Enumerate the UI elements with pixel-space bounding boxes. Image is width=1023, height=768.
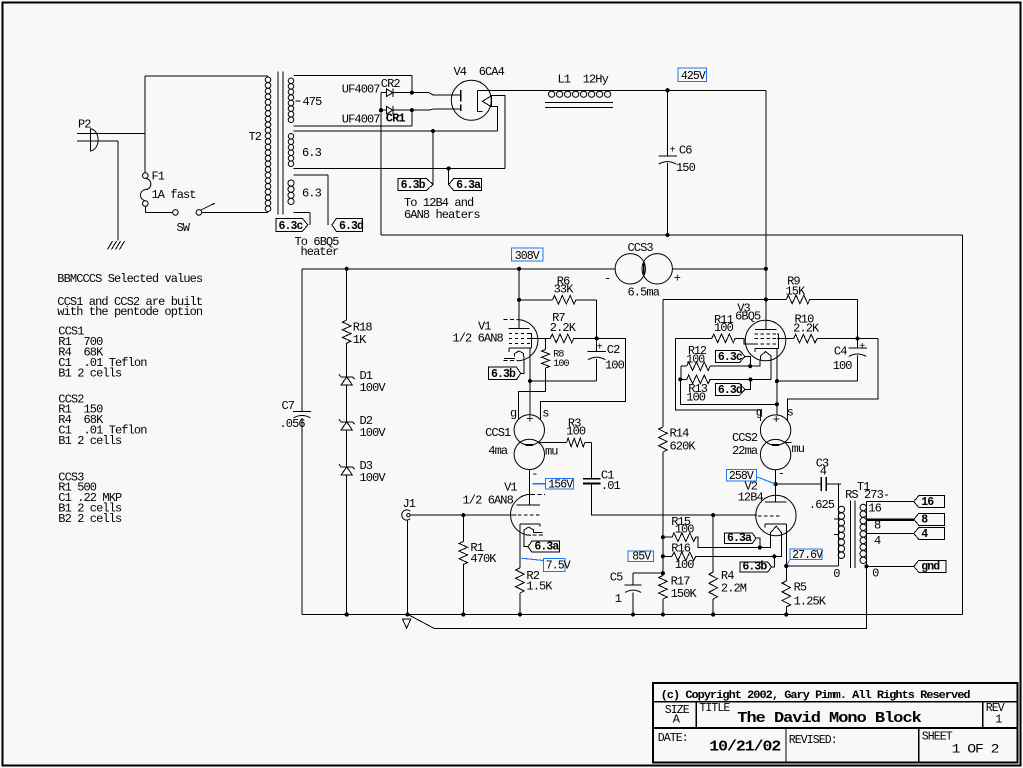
capacitor C2 100uF [596,338,598,351]
resistor R18 1K [342,320,351,343]
svg-text:UF4007: UF4007 [342,112,381,126]
wire C2 bottom to cathode node [530,380,597,382]
junction V3 plate node [764,297,768,301]
svg-text:6.3d: 6.3d [718,384,743,397]
junction 6.3c drop [748,364,752,368]
ground chassis [108,241,113,250]
flag 6.3d at V3 [715,384,745,396]
svg-text:1.5K: 1.5K [526,580,553,594]
T1 primary winding [838,506,844,512]
transformer T2 primary winding [265,77,271,83]
svg-text:(c) Copyright 2002, Gary Pimm.: (c) Copyright 2002, Gary Pimm. All Right… [661,690,970,702]
svg-text:1A fast: 1A fast [152,188,196,202]
wire heater to flag 6.3a [524,533,528,547]
svg-text:V1: V1 [504,480,517,494]
zener D1 100V [339,374,355,379]
svg-text:1/2 6AN8: 1/2 6AN8 [463,493,514,507]
wire hot to fuse [144,134,146,173]
wire to V4 top plate [412,93,461,95]
V1 triode heater [524,527,533,532]
flag 6.3a [449,179,482,191]
svg-text:C4: C4 [834,345,847,359]
wire R12 to heater left [750,360,760,367]
V2 heater [770,526,781,536]
junction CR1 anode [379,108,383,112]
wire rail to R18 [346,269,348,320]
svg-text:s: s [542,407,549,421]
flag 8 [914,513,945,525]
svg-text:6AN8 heaters: 6AN8 heaters [404,208,480,222]
V3 suppressor to cathode tie [777,334,779,349]
svg-text:2.2K: 2.2K [793,322,820,336]
V4 plate top [460,90,462,102]
zener D2 100V [339,419,355,424]
svg-text:6.3b: 6.3b [491,368,516,381]
svg-text:16: 16 [921,496,934,509]
wire ground bus bottom [302,614,963,616]
flag 6.3a at V2 [725,533,757,543]
V1 pentode cathode [509,347,532,349]
flag 6.3c [276,218,308,231]
wire ground return to T1 secondary 0 [410,566,867,628]
svg-text:10/21/02: 10/21/02 [709,739,781,756]
flag 6.3a at V1 [528,541,560,552]
svg-text:gnd: gnd [921,561,940,574]
svg-text:100: 100 [833,359,853,373]
V2 grid [758,515,781,517]
T1 primary taps [834,518,838,520]
wire V4 heater pin to 6.3 winding top [491,107,497,131]
wire V3 cathode down [776,348,778,415]
svg-text:T2: T2 [249,130,262,144]
winding 6.3 second [288,180,294,186]
svg-text:150: 150 [676,161,696,175]
junction heater 6.3b tap [431,129,435,133]
svg-text:SW: SW [177,221,191,235]
svg-text:156V: 156V [548,478,573,491]
wire CCS1 minus to V1 triode plate [528,470,530,505]
svg-text:0: 0 [833,567,840,581]
svg-text:g: g [756,406,763,420]
svg-text:+: + [773,413,780,427]
junction V3 cathode bracket [775,402,779,406]
capacitor C3 4uF [776,483,822,485]
svg-text:+: + [859,342,865,353]
svg-text:308V: 308V [515,250,540,263]
svg-text:16: 16 [868,501,881,515]
svg-text:0: 0 [872,566,879,580]
capacitor C4 100uF [857,339,859,348]
junction R6 tap [517,298,521,302]
junction cathode node [528,379,532,383]
V3 plate [755,329,776,331]
flag 6.3d [332,218,363,231]
resistor R17 150K [662,573,664,575]
svg-text:P2: P2 [78,117,91,131]
switch SW [173,210,179,216]
wire ground bus right side [962,235,964,615]
junction R13 left [678,377,682,381]
svg-text:C5: C5 [610,570,623,584]
junction 258V node [774,482,778,486]
CCS2 mu stub [784,442,792,444]
resistor R14 620K [662,299,664,427]
wire V1 cathode down [529,348,531,381]
V1 pentode plate [509,328,530,330]
svg-text:6.3d: 6.3d [339,220,364,233]
svg-text:6.3: 6.3 [302,187,322,201]
wire C4 bottom to V3 cathode [777,380,858,382]
wire 425V to V3 plate [765,269,767,330]
resistor R1 470K [462,515,464,541]
svg-text:620K: 620K [670,439,697,453]
junction R4 top [711,513,715,517]
CCS1 mu output [538,442,544,444]
V1 suppressor to cathode tie [530,334,532,349]
wire J1 to V1 grid [410,514,516,516]
wire zener column to ground bus [346,475,348,614]
svg-text:s: s [787,405,794,419]
svg-text:V4 6CA4: V4 6CA4 [454,65,505,79]
svg-text:33K: 33K [554,283,575,297]
svg-text:UF4007: UF4007 [342,83,381,97]
wire P2 neutral to ground [91,140,119,142]
svg-text:B2 2 cells: B2 2 cells [58,512,122,526]
wire R15 to V2 heater left [760,536,771,548]
flag 6.3c at V3 [715,350,745,362]
T1 0 tap to gnd flag [866,565,913,567]
wire R11 to CCS2 gate [675,338,760,421]
svg-text:DATE:: DATE: [658,732,688,745]
junction C6 top [665,88,669,92]
svg-text:F1: F1 [152,170,165,184]
V1 triode plate [516,504,539,506]
V3 cathode [755,347,778,349]
V2 cathode [765,523,786,525]
svg-text:475: 475 [303,95,323,109]
V1 pentode grids [509,333,530,335]
V3 grids [755,333,778,335]
wire C3 to T1 primary [837,484,839,566]
junction V2 cathode R5 [784,564,788,568]
svg-text:6.3b: 6.3b [742,561,767,574]
svg-text:1: 1 [995,713,1002,727]
wire R12 R13 left bracket [680,366,682,379]
T1 4 ohm tap [866,533,913,535]
svg-text:100V: 100V [360,381,387,395]
svg-text:The David Mono Block: The David Mono Block [737,710,922,727]
svg-text:12B4: 12B4 [738,491,764,505]
flag 6.3b at V2 [740,562,772,572]
svg-text:RS 273-: RS 273- [845,488,889,502]
svg-text:-: - [778,467,784,481]
svg-text:CCS1: CCS1 [485,426,511,440]
wire node to CCS1 screen [540,338,625,419]
svg-text:2.2M: 2.2M [721,582,747,596]
wire R13 to heater right [770,360,772,380]
svg-text:100: 100 [553,359,569,370]
svg-text:6.5ma: 6.5ma [628,285,660,299]
zener D3 100V [339,464,355,469]
svg-text:6.3a: 6.3a [534,541,559,554]
wire 425V rail right [765,90,767,268]
wire J1 to ground [407,520,409,615]
plug P2 [91,129,99,151]
svg-text:g: g [510,407,517,421]
wire R16 to V2 heater right [774,536,781,556]
node 85V [628,551,654,561]
T1 16 ohm tap [866,500,913,502]
junction 308V R18 column [345,267,349,271]
svg-text:100: 100 [675,522,695,536]
svg-text:.01: .01 [601,479,621,493]
wire R14 column junctions [662,537,664,573]
wire ground bus top [381,234,963,236]
flag 4 [914,528,945,540]
junction V1 plate rail [517,267,521,271]
T1 8 ohm tap [866,518,913,521]
svg-text:with the pentode option: with the pentode option [57,305,203,319]
flag 16 [914,496,945,508]
svg-text:425V: 425V [681,70,706,83]
wire to flag 6.3b [432,131,434,185]
svg-text:B1 2 cells: B1 2 cells [58,366,122,380]
wire switch to primary [202,211,268,213]
V2 plate [765,501,786,503]
fuse F1 [143,173,149,179]
svg-text:85V: 85V [632,551,651,564]
wire V4 cathode to B+ rail [478,89,766,91]
wire to V4 bottom plate [412,109,461,110]
svg-text:L1 12Hy: L1 12Hy [558,73,609,87]
svg-text:4: 4 [820,465,827,479]
junction R7 R6 C2 node [595,336,599,340]
svg-text:CR2: CR2 [381,77,401,91]
wire V2 cathode to T1 primary [786,565,838,567]
svg-text:100: 100 [605,359,625,373]
junction R16 left [661,554,665,558]
svg-text:+: + [674,271,681,285]
wire fuse to switch [144,206,146,212]
svg-text:100: 100 [714,321,734,335]
node 27.6V [790,549,822,560]
svg-text:heater: heater [301,245,340,259]
svg-text:+: + [670,145,676,156]
svg-text:100: 100 [566,425,586,439]
svg-text:6.3a: 6.3a [456,179,481,192]
junction 6.3d rise [748,377,752,381]
svg-text:1K: 1K [353,333,367,347]
wire CR2 anode [381,92,386,94]
V3 heater [760,352,770,360]
wire CR1 cathode to junction [393,109,412,111]
svg-text:8: 8 [874,518,881,532]
svg-text:SHEET: SHEET [922,730,953,743]
svg-text:100V: 100V [360,471,387,485]
svg-text:8: 8 [921,514,928,527]
junction C4 top [855,337,859,341]
svg-text:6.3c: 6.3c [718,351,743,364]
wire R10 to CCS2 screen [787,339,878,421]
svg-text:R5: R5 [794,580,807,594]
wire CR2 cathode to junction [393,92,412,94]
winding 475 [288,78,294,84]
svg-text:C6: C6 [679,143,692,157]
svg-text:TITLE: TITLE [699,702,730,715]
resistor R4 2.2M [712,515,714,572]
svg-text:100V: 100V [360,426,387,440]
junction CCS3 plus [764,267,768,271]
wire 308V rail [302,268,615,270]
capacitor C7 .056 [301,269,303,412]
wire bracket to cathode node [680,379,776,404]
wire diode anodes down to ground bus [380,93,382,235]
wire P2 hot to transformer [91,133,146,135]
node 7.5V [522,558,544,560]
junction secondary 0 [864,564,868,568]
wire V2 cathode down [785,524,787,566]
V1 pentode heater [515,351,524,357]
T1 secondary winding [865,501,867,566]
junction R1 top [461,513,465,517]
svg-text:C2: C2 [607,343,620,357]
transformer T2 core [277,72,279,215]
wire V4 heater pin to 6.3 winding bottom [491,96,505,169]
capacitor C1 .01 [590,443,592,479]
svg-text:CR1: CR1 [386,112,406,126]
svg-text:REVISED:: REVISED: [789,734,837,747]
junction C6 bottom [665,233,669,237]
resistor R2 1.5K [516,568,525,593]
wire rail to C6 [667,90,669,155]
svg-text:J1: J1 [403,497,416,511]
svg-text:100: 100 [686,391,706,405]
svg-text:1/2 6AN8: 1/2 6AN8 [452,331,503,345]
svg-text:-: - [531,467,537,481]
flag 6.3b [398,179,433,191]
junction CR2 node [410,91,414,95]
node 425V [678,68,707,82]
V4 cathode [478,90,483,111]
flag 6.3b at V1 [489,367,521,379]
junction C5 R17 [661,571,665,575]
node 308V [512,248,544,261]
wire V1 plate to 308V rail [518,269,520,329]
svg-text:6.3c: 6.3c [279,220,304,233]
svg-text:1: 1 [615,592,622,606]
svg-text:+: + [526,413,533,427]
svg-text:1.25K: 1.25K [794,595,827,609]
junction 6.3a drop at V2 [758,545,762,549]
svg-text:4ma: 4ma [488,444,508,458]
V1 triode cathode [520,523,540,525]
svg-text:C7: C7 [282,399,295,413]
svg-text:CCS3: CCS3 [628,241,654,255]
svg-text:6BQ5: 6BQ5 [735,309,761,323]
svg-text:2.2K: 2.2K [550,321,577,335]
svg-text:4: 4 [921,528,928,541]
svg-text:470K: 470K [470,552,497,566]
svg-text:4: 4 [874,534,881,548]
V4 plate bottom [460,105,462,112]
svg-text:150K: 150K [671,587,698,601]
junction heater 6.3a tap [447,166,451,170]
winding 6.3 first [288,134,294,140]
flag gnd [914,560,946,572]
node 258V [726,469,756,481]
junction 6.3b rise at V2 [772,554,776,558]
V1 triode grid [518,514,540,516]
title block frame [653,683,1018,763]
capacitor C5 1uF [633,572,663,574]
junction V3 cathode C4 [775,379,779,383]
ground arrow [402,619,411,629]
svg-text:7.5V: 7.5V [546,560,571,573]
junction J1 ground [406,612,410,616]
svg-text:mu: mu [792,442,805,456]
T1 core [850,501,852,569]
svg-text:.625: .625 [809,498,835,512]
svg-text:6.3: 6.3 [302,146,322,160]
svg-text:6.3a: 6.3a [727,532,752,545]
svg-text:mu: mu [545,444,558,458]
svg-text:22ma: 22ma [732,444,758,458]
wire CCS2 to V2 plate [775,470,777,502]
junction R15 left [661,535,665,539]
wire to flag 6.3a [448,168,450,184]
junction CR1 node [410,108,414,112]
wire V1 triode cathode to R2 [519,524,521,568]
svg-text:1 OF 2: 1 OF 2 [952,743,999,757]
svg-text:27.6V: 27.6V [792,549,823,562]
svg-text:-: - [604,271,610,285]
wire cathode node to CCS1 plus [529,381,531,415]
svg-text:6.3b: 6.3b [401,179,426,192]
svg-text:BBMCCCS Selected values: BBMCCCS Selected values [57,272,203,286]
resistor R5 1.25K [782,581,791,607]
wire CR1 anode [381,109,386,111]
wire CCS3 plus to 425V [672,268,766,270]
svg-text:B1 2 cells: B1 2 cells [58,434,122,448]
svg-text:CCS2: CCS2 [732,431,758,445]
